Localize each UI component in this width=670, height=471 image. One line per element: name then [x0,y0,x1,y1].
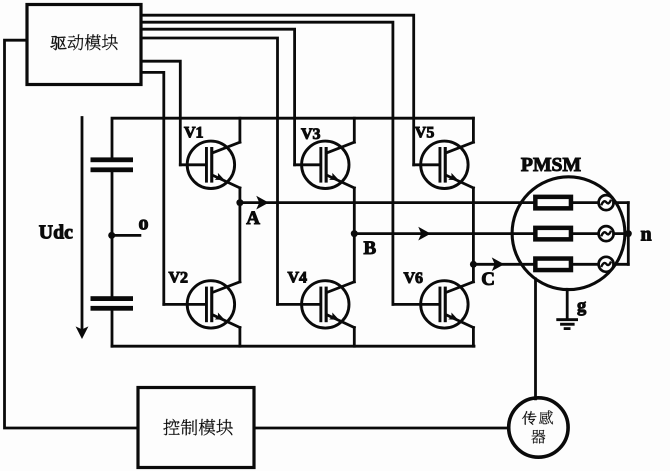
svg-text:V2: V2 [169,270,189,287]
svg-text:V3: V3 [301,126,321,143]
svg-text:g: g [577,297,587,317]
svg-text:V1: V1 [184,124,204,141]
svg-text:o: o [139,213,149,235]
svg-text:V4: V4 [288,270,308,287]
svg-text:V6: V6 [404,270,424,287]
svg-text:A: A [246,208,260,229]
svg-text:C: C [481,269,495,290]
svg-text:B: B [364,238,377,259]
svg-text:Udc: Udc [39,222,73,244]
svg-text:PMSM: PMSM [521,154,582,176]
svg-text:n: n [641,224,652,246]
svg-text:V5: V5 [415,124,435,141]
